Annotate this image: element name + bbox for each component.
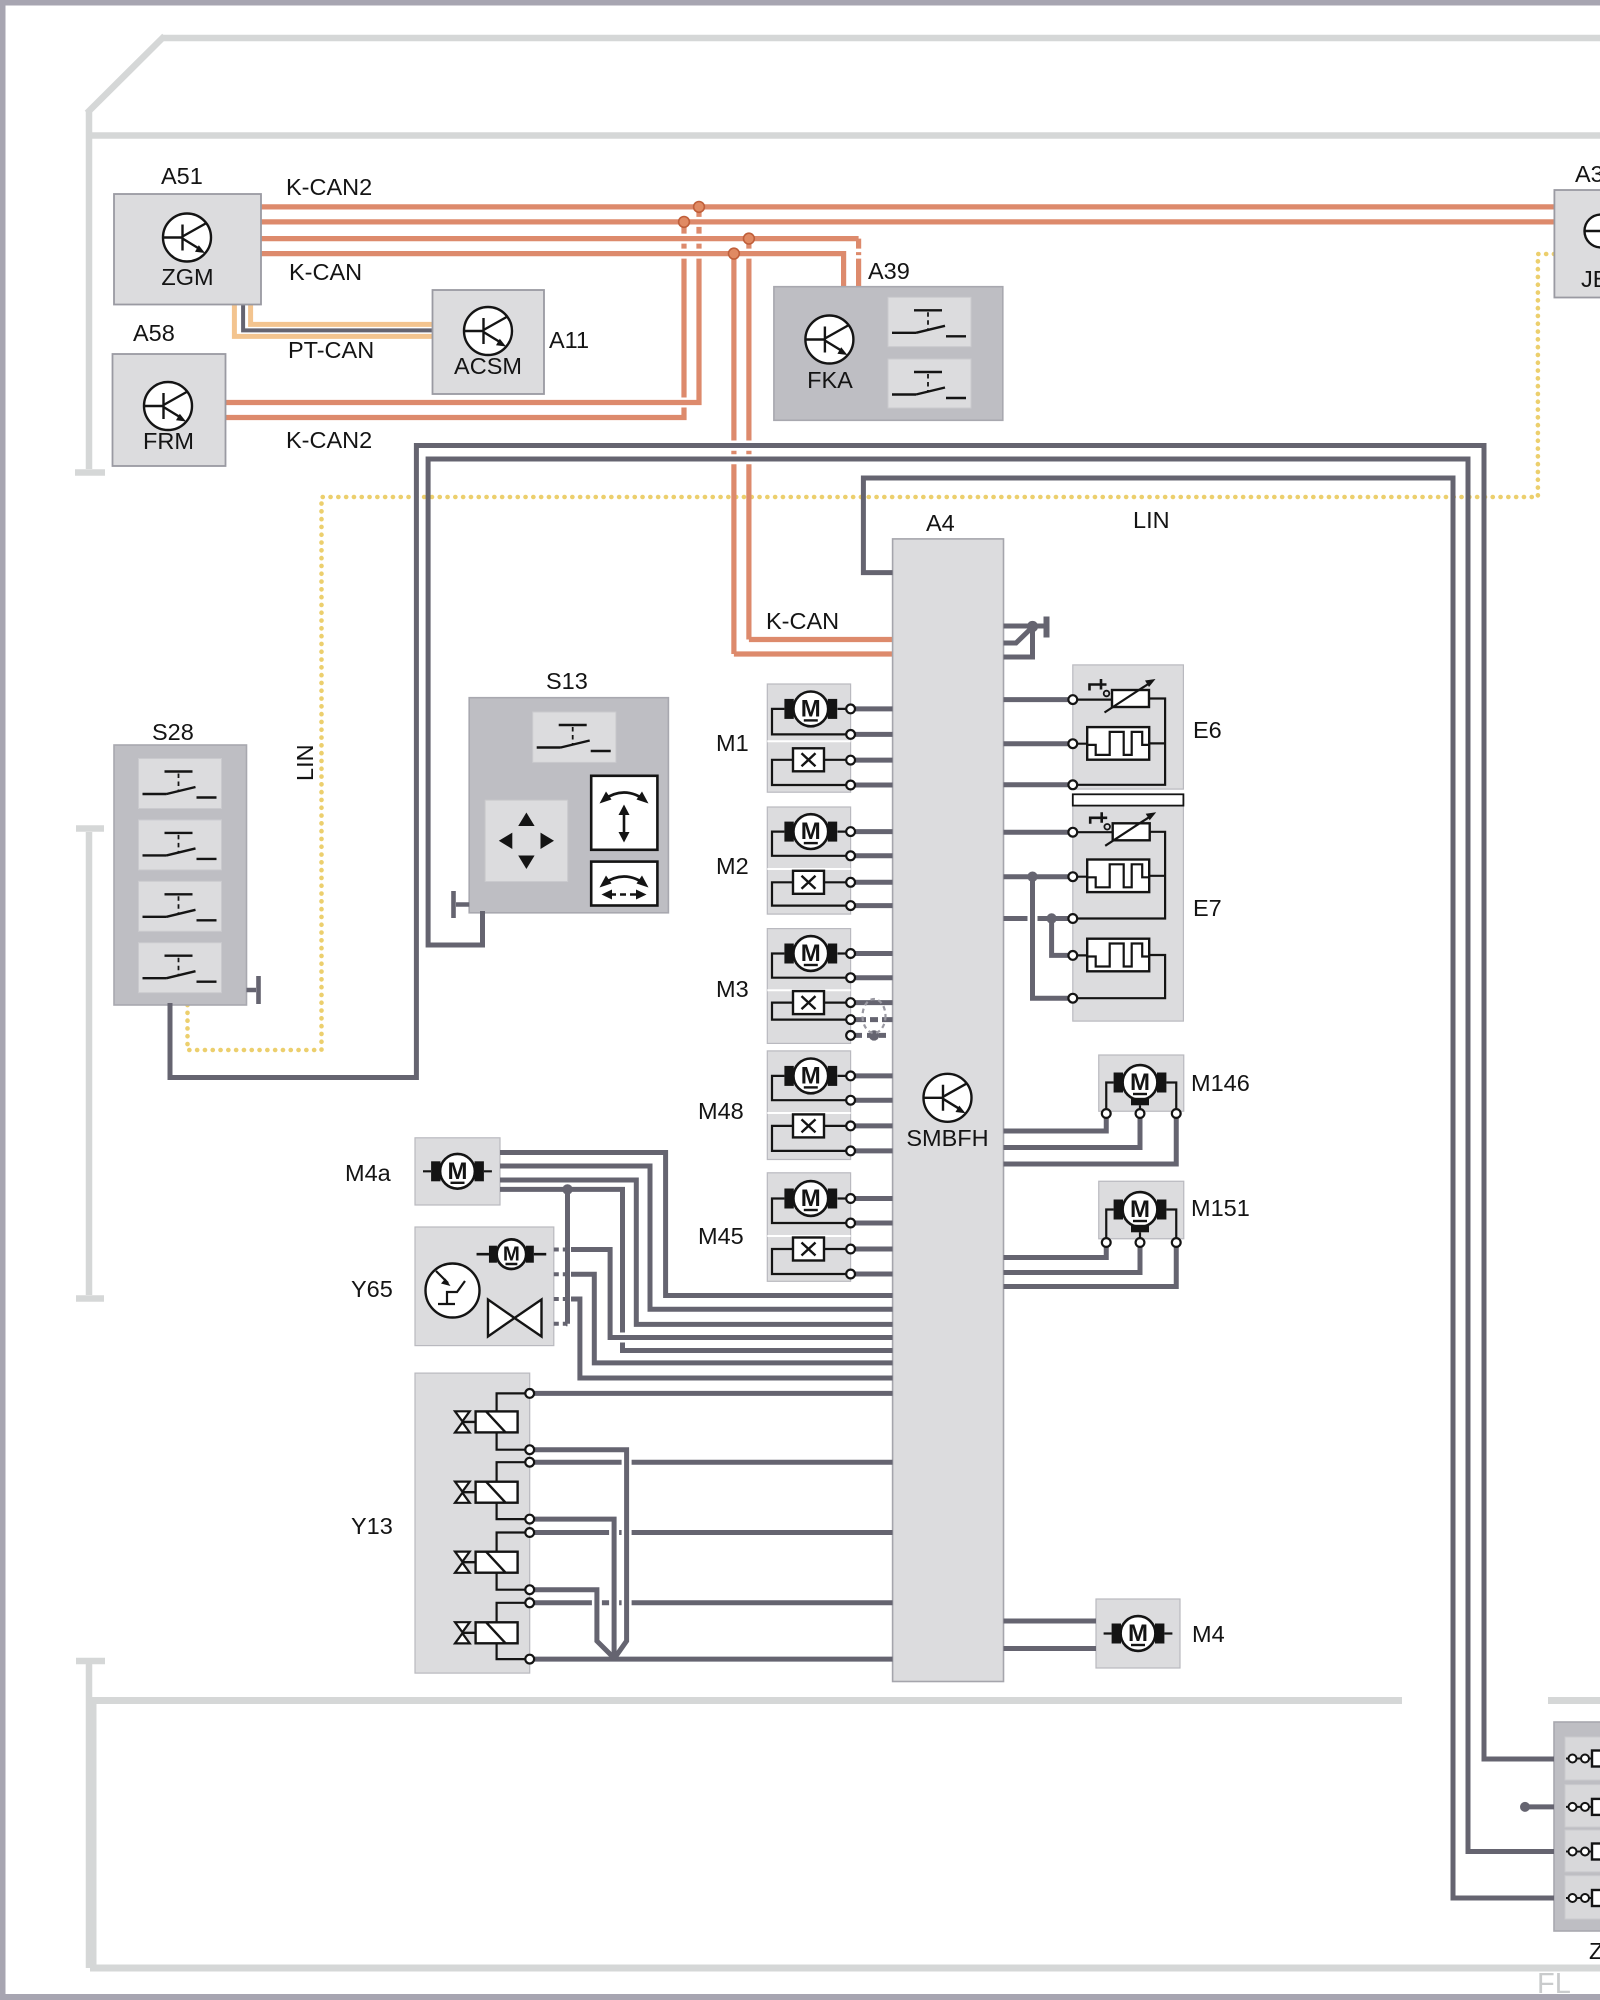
wire branch E7 terminal 2 junction down to E7 terminal 5 xyxy=(1033,877,1069,999)
valve unit Y65 box xyxy=(415,1227,554,1346)
switch contact symbol S28 sub 1 xyxy=(143,772,217,798)
PWM element symbol 1 in E7 xyxy=(1087,860,1149,893)
wire M45 terminal 4 to A4 xyxy=(855,1272,893,1277)
wire M45 terminal 2 to A4 xyxy=(855,1221,893,1226)
wire stub to Z fuse 2 xyxy=(1526,1804,1555,1809)
wire M45 terminal 1 to A4 xyxy=(855,1196,893,1201)
wire K-CAN2 branch upper to A58 FRM xyxy=(226,207,700,403)
switch contact sub-box 1 in A39 xyxy=(888,297,971,346)
svg-text:M146: M146 xyxy=(1191,1070,1250,1096)
motor symbol M151 xyxy=(1114,1192,1167,1227)
motor M146 box xyxy=(1099,1055,1184,1111)
svg-text:FKA: FKA xyxy=(807,367,853,393)
wire Y13 terminal 7 to A4 xyxy=(534,1600,893,1605)
junction K-CAN upper / A4 branch xyxy=(744,233,755,244)
M146 terminal wiring xyxy=(1106,1083,1176,1111)
wire A4 to M4 lead 1 xyxy=(1004,1619,1097,1624)
wire M2 terminal 1 to A4 xyxy=(855,829,893,834)
M45 motor loop wiring xyxy=(772,1199,846,1224)
wire Y13 terminal 8 to A4 xyxy=(534,1657,893,1662)
wire K-CAN2 bus lower (A51 ZGM to JBE) xyxy=(261,219,1554,224)
junction box electronics A31 JBE box xyxy=(1554,190,1600,298)
wire A4 to E6 terminal 3 xyxy=(1004,782,1069,787)
fuse element symbol Z sub 1 xyxy=(1566,1758,1600,1760)
wire M4a lead 4 to A4 with Y65 branch xyxy=(500,1189,893,1350)
switch contact symbol A39 sub 2 xyxy=(892,372,966,398)
svg-text:M1: M1 xyxy=(716,730,749,756)
wire Y13 terminal 4 merging into terminal 8 line xyxy=(534,1519,614,1659)
svg-text:SMBFH: SMBFH xyxy=(906,1125,988,1151)
wire M1 terminal 3 to A4 xyxy=(855,758,893,763)
antenna terminal bar xyxy=(1044,617,1050,638)
motor symbol M45 xyxy=(784,1181,837,1216)
motor unit M1 box xyxy=(767,684,850,792)
wire K-CAN2 branch lower to A58 FRM xyxy=(226,222,685,418)
switch contact sub-box 1 in S28 xyxy=(139,759,222,809)
wire A4 to M151 terminal 1 xyxy=(1004,1247,1107,1258)
thermistor symbol in E7 xyxy=(1090,812,1156,846)
Y13 unit 2 coil wiring xyxy=(497,1462,526,1519)
terminal circles M151 xyxy=(1102,1238,1181,1247)
svg-text:ZE: ZE xyxy=(1589,1938,1600,1964)
fuse sub-box 3 in Z xyxy=(1565,1830,1600,1872)
wire A4 to E6 terminal 1 xyxy=(1004,697,1069,702)
control unit A4 SMBFH box xyxy=(893,539,1004,1682)
separator bar between E6 and E7 xyxy=(1073,794,1184,805)
wire A4 to E6 terminal 2 xyxy=(1004,741,1069,746)
wire M3 terminal 5 dashed stub xyxy=(855,1033,888,1038)
car body cut line left upper xyxy=(75,110,105,473)
motor symbol M48 xyxy=(784,1059,837,1094)
connector detail dashed ellipse at M3 xyxy=(863,999,886,1033)
svg-text:S13: S13 xyxy=(546,668,588,694)
blocking element symbol M3 xyxy=(793,991,824,1014)
wire M48 terminal 2 to A4 xyxy=(855,1098,893,1103)
Y13 unit 3 coil wiring xyxy=(497,1533,526,1590)
svg-text:A31: A31 xyxy=(1575,161,1600,187)
wire M4a lead 2 to A4 xyxy=(500,1166,893,1309)
fuse sub-box 4 in Z xyxy=(1565,1876,1600,1919)
wire Y13 terminal 5 to A4 xyxy=(534,1530,893,1535)
control unit A11 ACSM box xyxy=(433,290,545,394)
svg-text:LIN: LIN xyxy=(1133,507,1170,533)
wire LIN bus (yellow dotted) from JBE to S28 xyxy=(188,254,1555,1050)
motor symbol M4 xyxy=(1112,1616,1165,1651)
ground stub at S13 xyxy=(454,891,470,918)
svg-text:K-CAN: K-CAN xyxy=(289,259,362,285)
solenoid valve symbol Y13 unit 1 xyxy=(455,1411,518,1432)
solenoid valve symbol Y13 unit 4 xyxy=(455,1622,518,1643)
wire M48 terminal 3 to A4 xyxy=(855,1123,893,1128)
terminal circles E7 xyxy=(1068,828,1077,1003)
svg-text:M45: M45 xyxy=(698,1223,744,1249)
switch contact sub-box 4 in S28 xyxy=(139,943,222,993)
motor unit M3 box xyxy=(767,929,850,1044)
motor unit M2 box xyxy=(767,807,850,914)
wire K-CAN branch upper to A4 xyxy=(749,239,893,640)
dashed lead Y65 terminal 2 xyxy=(554,1272,571,1276)
wire K-CAN branch lower to A4 xyxy=(734,254,893,654)
terminal circles M45 xyxy=(846,1194,855,1278)
svg-text:FRM: FRM xyxy=(143,428,194,454)
E7 internal wiring xyxy=(1077,832,1165,998)
transistor symbol in A11 ACSM xyxy=(464,307,512,355)
wire branch from M4a lead 4 junction down to Y65 terminal 4 xyxy=(566,1189,568,1323)
switch contact symbol A39 sub 1 xyxy=(892,310,966,336)
wire M3 terminal 1 to A4 xyxy=(855,951,893,956)
terminal circles M3 xyxy=(846,949,855,1040)
switch contact sub-box 2 in A39 xyxy=(888,359,971,408)
junction dot E7 terminal 2 branch xyxy=(1027,872,1037,882)
blocking element symbol M1 xyxy=(793,748,824,771)
wire A4 to M146 terminal 2 xyxy=(1004,1118,1141,1148)
svg-text:LIN: LIN xyxy=(292,744,318,781)
mirror adjust symbol box 1 in S13 xyxy=(591,776,657,850)
E6 internal wiring xyxy=(1077,699,1165,785)
wire K-CAN bus upper (A51 ZGM to A39 FKA) xyxy=(261,239,859,289)
wire PT-CAN lower (ZGM to ACSM) xyxy=(234,305,432,337)
wire Y13 terminal 3 to A4 xyxy=(534,1460,893,1465)
control unit A58 FRM box xyxy=(113,354,226,466)
Y13 unit 1 coil wiring xyxy=(497,1393,526,1449)
PWM element symbol 2 in E7 xyxy=(1087,939,1149,972)
svg-text:M151: M151 xyxy=(1191,1195,1250,1221)
wire PT-CAN middle conductor (ZGM to ACSM) xyxy=(243,305,432,331)
PWM element symbol in E6 xyxy=(1087,727,1149,760)
mirror fold symbol box 2 in S13 xyxy=(591,862,657,906)
motor symbol M146 xyxy=(1114,1065,1167,1100)
svg-text:E6: E6 xyxy=(1193,717,1222,743)
wire M45 terminal 3 to A4 xyxy=(855,1247,893,1252)
svg-text:FL: FL xyxy=(1537,1968,1571,2000)
wire ground bus from S28 via left riser to Z fuse 1 xyxy=(170,446,1554,1760)
wire LIN from A4 to Z fuse 4 xyxy=(863,478,1554,1898)
motor symbol M4a xyxy=(431,1154,484,1189)
fuse box Z box xyxy=(1554,1722,1600,1931)
arrow pad sub-box in S13 xyxy=(485,800,567,881)
M3 motor loop wiring xyxy=(772,954,846,978)
junction dot M3 terminal 5 stub xyxy=(869,1030,879,1040)
solenoid valve symbol Y13 unit 2 xyxy=(455,1482,518,1503)
M48 blocking element loop wiring xyxy=(772,1126,846,1151)
junction K-CAN lower / A4 branch xyxy=(729,248,740,259)
fuse element symbol Z sub 4 xyxy=(1566,1897,1600,1899)
control unit A39 FKA box xyxy=(774,287,1003,421)
car body outline top xyxy=(87,36,1600,136)
transistor symbol in A39 FKA xyxy=(805,316,853,364)
wire A4 to M146 terminal 3 xyxy=(1004,1118,1177,1164)
junction box symbol in A31 JBE xyxy=(1585,215,1600,248)
terminal circles M2 xyxy=(846,827,855,910)
M1 motor loop wiring xyxy=(772,709,846,735)
terminal circles M146 xyxy=(1102,1109,1181,1118)
arrow pad arrows in S13 xyxy=(499,813,554,870)
wire A4 to M146 terminal 1 xyxy=(1004,1118,1107,1131)
wire A4 to E7 terminal 3 xyxy=(1004,916,1069,921)
transistor symbol in A58 FRM xyxy=(144,382,192,430)
wire Y65 terminal 3 to A4 xyxy=(571,1299,893,1378)
wire K-CAN bus lower (A51 ZGM to A39 FKA) xyxy=(261,254,844,289)
svg-text:ZGM: ZGM xyxy=(161,264,213,290)
valve block Y13 box xyxy=(415,1373,530,1673)
wire K-CAN2 bus upper (A51 ZGM to JBE) xyxy=(261,204,1554,209)
svg-text:PT-CAN: PT-CAN xyxy=(288,337,374,363)
fuse element symbol Z sub 3 xyxy=(1566,1851,1600,1853)
motor symbol M1 xyxy=(784,692,837,727)
transistor symbol in A4 SMBFH xyxy=(924,1074,972,1122)
switch contact symbol S28 sub 2 xyxy=(143,833,217,859)
wire branch E7 terminal 3 junction down to E7 terminal 4 xyxy=(1052,919,1069,956)
svg-text:A51: A51 xyxy=(161,163,203,189)
M45 blocking element loop wiring xyxy=(772,1249,846,1274)
wire M48 terminal 1 to A4 xyxy=(855,1073,893,1078)
junction dot E7 terminal 3 branch xyxy=(1046,913,1056,923)
switch contact symbol S28 sub 4 xyxy=(143,956,217,982)
svg-text:A58: A58 xyxy=(133,320,175,346)
motor symbol in Y65 xyxy=(477,1239,547,1269)
svg-text:A39: A39 xyxy=(868,258,910,284)
svg-text:A4: A4 xyxy=(926,510,955,536)
wire A4 to E7 terminal 2 xyxy=(1004,874,1069,879)
blocking element symbol M48 xyxy=(793,1114,824,1137)
wire A4 to M151 terminal 2 xyxy=(1004,1247,1141,1273)
motor symbol M2 xyxy=(784,814,837,849)
motor unit M48 box xyxy=(767,1051,850,1160)
ground stub at S28 xyxy=(247,976,259,1004)
solenoid valve symbol Y13 unit 3 xyxy=(455,1552,518,1573)
terminal circles M1 xyxy=(846,705,855,790)
wire A4 antenna lead 1 xyxy=(1004,624,1045,629)
dashed lead Y65 terminal 4 xyxy=(554,1322,568,1326)
terminal circles M48 xyxy=(846,1072,855,1156)
car body cut line left lower xyxy=(76,1661,105,1968)
M1 blocking element loop wiring xyxy=(772,760,846,785)
switch contact sub-box in S13 xyxy=(533,712,616,762)
svg-text:K-CAN: K-CAN xyxy=(766,608,839,634)
junction K-CAN2 upper / FRM branch xyxy=(694,202,705,213)
wire Y65 terminal 1 to A4 xyxy=(571,1250,893,1338)
M151 terminal wiring xyxy=(1106,1210,1176,1240)
wire M2 terminal 3 to A4 xyxy=(855,880,893,885)
wire bus from S13 via riser to Z fuse 3 xyxy=(428,459,1554,1852)
transistor symbol in A51 ZGM xyxy=(163,214,211,262)
wire A4 antenna lead 2 diagonal xyxy=(1004,628,1032,643)
car body cut line left middle xyxy=(76,829,104,1299)
svg-text:A11: A11 xyxy=(549,327,589,353)
wire M1 terminal 2 to A4 xyxy=(855,732,893,737)
fuse sub-box 1 in Z xyxy=(1565,1737,1600,1780)
thermal cutout symbol in Y65 xyxy=(426,1264,480,1318)
motor unit M45 box xyxy=(767,1173,850,1282)
switch contact sub-box 2 in S28 xyxy=(139,820,222,870)
svg-text:K-CAN2: K-CAN2 xyxy=(286,427,372,453)
blocking element symbol M2 xyxy=(793,871,824,894)
M2 motor loop wiring xyxy=(772,832,846,856)
wire M3 terminal 2 to A4 xyxy=(855,975,893,980)
junction dot antenna leads xyxy=(1027,621,1038,632)
svg-text:Y13: Y13 xyxy=(351,1513,393,1539)
wire PT-CAN upper (ZGM to ACSM) xyxy=(251,305,433,325)
svg-text:ACSM: ACSM xyxy=(454,353,522,379)
svg-text:M2: M2 xyxy=(716,853,749,879)
heater unit E7 box xyxy=(1073,806,1184,1022)
svg-text:Y65: Y65 xyxy=(351,1276,393,1302)
thermistor symbol in E6 xyxy=(1090,679,1156,713)
wire A4 antenna lead 3 xyxy=(1004,629,1033,657)
wire M1 terminal 1 to A4 xyxy=(855,706,893,711)
blocking element symbol M45 xyxy=(793,1238,824,1261)
svg-text:M3: M3 xyxy=(716,976,749,1002)
switch contact symbol S28 sub 3 xyxy=(143,894,217,920)
wire Y13 terminal 2 merging into terminal 8 line xyxy=(534,1450,627,1657)
Y13 unit 4 coil wiring xyxy=(497,1603,526,1659)
dashed lead Y65 terminal 1 xyxy=(554,1248,571,1252)
junction dot M4a lead 4 / Y65 branch xyxy=(562,1184,572,1194)
motor M151 box xyxy=(1099,1181,1184,1239)
wire Y13 terminal 6 merging into terminal 8 line xyxy=(534,1590,613,1657)
motor M4 box xyxy=(1096,1599,1180,1668)
wire M3 terminal 4 to A4 (dashed through connector) xyxy=(855,1017,893,1022)
fuse element symbol Z sub 2 xyxy=(1566,1806,1600,1808)
svg-text:S28: S28 xyxy=(152,719,194,745)
svg-text:M4: M4 xyxy=(1192,1621,1225,1647)
terminal circles Z fuse box xyxy=(1569,1755,1590,1903)
terminal circles Y13 xyxy=(525,1389,534,1664)
wire M1 terminal 4 to A4 xyxy=(855,783,893,788)
wire A4 to E7 terminal 1 xyxy=(1004,830,1069,835)
svg-text:JBE: JBE xyxy=(1581,266,1600,292)
motor M4a box xyxy=(415,1138,500,1205)
fuse sub-box 2 in Z xyxy=(1565,1785,1600,1827)
terminal circles E6 xyxy=(1068,695,1077,789)
switch unit S13 box xyxy=(469,698,668,913)
svg-text:K-CAN2: K-CAN2 xyxy=(286,174,372,200)
motor symbol M3 xyxy=(784,936,837,971)
switch contact sub-box 3 in S28 xyxy=(139,881,222,931)
M4 stub leads xyxy=(1104,1632,1173,1634)
svg-text:E7: E7 xyxy=(1193,895,1222,921)
switch contact symbol S13 xyxy=(537,725,611,751)
svg-text:M48: M48 xyxy=(698,1098,744,1124)
valve symbol in Y65 xyxy=(488,1300,515,1337)
svg-text:M: M xyxy=(503,1244,520,1266)
wire Y65 terminal 2 to A4 xyxy=(571,1274,893,1363)
wire M3 terminal 3 to A4 xyxy=(855,1000,893,1005)
M4a stub leads xyxy=(423,1170,492,1172)
dashed lead Y65 terminal 3 xyxy=(554,1297,571,1301)
wire A4 to M4 lead 2 xyxy=(1004,1646,1097,1651)
wire M2 terminal 4 to A4 xyxy=(855,903,893,908)
wire M48 terminal 4 to A4 xyxy=(855,1148,893,1153)
control unit A51 ZGM box xyxy=(114,194,261,305)
junction K-CAN2 lower / FRM branch xyxy=(679,217,690,228)
wire Y13 terminal 1 to A4 xyxy=(534,1391,893,1396)
M2 blocking element loop wiring xyxy=(772,882,846,905)
wire M4a lead 3 to A4 xyxy=(500,1180,893,1324)
wire M4a lead 1 to A4 xyxy=(500,1153,893,1296)
svg-text:M4a: M4a xyxy=(345,1160,392,1186)
heater unit E6 box xyxy=(1073,665,1184,789)
car body outline bottom section xyxy=(90,1697,1600,1968)
M48 motor loop wiring xyxy=(772,1076,846,1100)
wire A4 to M151 terminal 3 xyxy=(1004,1247,1177,1287)
M3 blocking element loop wiring xyxy=(772,1003,846,1020)
wire M2 terminal 2 to A4 xyxy=(855,853,893,858)
switch block S28 box xyxy=(114,745,247,1005)
